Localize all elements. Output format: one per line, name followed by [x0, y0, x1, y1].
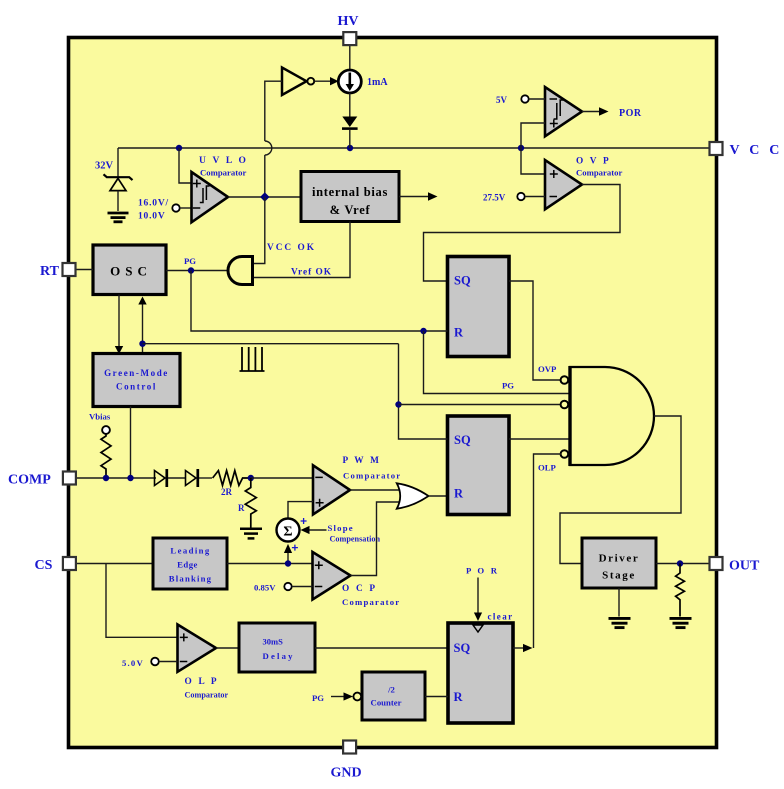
ground (OUT resistor): [670, 618, 692, 627]
zener Z1 32V branch wire: [117, 148, 119, 177]
wire: PG net down and right to FF1 R: [191, 271, 448, 332]
svg-text:Comparator: Comparator: [342, 597, 400, 607]
svg-text:POR: POR: [619, 108, 642, 119]
svg-text:CS: CS: [35, 558, 53, 573]
ground (zener): [108, 213, 129, 222]
comparator U4 POR: [545, 87, 582, 136]
wire: OR output to FF2 R: [429, 495, 448, 497]
zener Z1 symbol: [104, 174, 133, 180]
terminal 5.0V open circle: [151, 658, 159, 666]
pin HV square: [343, 32, 356, 45]
svg-text:RT: RT: [40, 264, 60, 279]
block Leading Edge Blanking: [153, 538, 227, 589]
svg-text:PG: PG: [312, 693, 324, 703]
wire: OSC to Green-Mode down arrow: [118, 295, 120, 348]
wire: counter to FF3 R: [425, 696, 448, 698]
svg-text:5.0V: 5.0V: [122, 658, 144, 668]
flip-flop FF2 SQ/R: [448, 416, 510, 515]
svg-text:Comparator: Comparator: [343, 471, 401, 481]
svg-text:Σ: Σ: [283, 525, 292, 540]
svg-text:32V: 32V: [95, 161, 114, 172]
svg-text:COMP: COMP: [8, 473, 51, 488]
symbol: oscillator comb ticks: [240, 347, 265, 371]
wire: OVP output routed to SQ1 S input: [424, 185, 621, 282]
svg-text:V C C: V C C: [730, 143, 783, 158]
wire+arrow: bias box output: [399, 196, 429, 198]
svg-text:/2: /2: [387, 685, 395, 695]
svg-text:Vref OK: Vref OK: [291, 268, 332, 278]
node: junction on rail at OVP/POR feed: [518, 145, 524, 151]
wire: FF1 Q output to NAND bubble input 1: [509, 281, 561, 380]
terminal 5V open circle: [521, 95, 528, 102]
block OSC: [93, 245, 166, 295]
wire: green-mode net down to FF2 S input: [399, 344, 448, 439]
wire: CS branch down to OLP + input: [106, 564, 178, 638]
clear notch triangle on FF3: [473, 625, 483, 632]
svg-text:27.5V: 27.5V: [483, 193, 506, 203]
wire: RT pin to OSC: [75, 269, 93, 271]
svg-text:R: R: [454, 690, 464, 704]
resistor 2R horizontal zigzag: [213, 471, 251, 486]
svg-text:& Vref: & Vref: [330, 203, 371, 217]
gate G1: 2-input AND (facing left): [228, 257, 252, 285]
wire: HV pin drop to current source: [349, 45, 351, 70]
svg-text:Control: Control: [116, 382, 157, 392]
flip-flop FF1 SQ/R: [448, 257, 510, 357]
svg-text:Edge: Edge: [177, 560, 198, 570]
node: junction Vbias/COMP: [103, 475, 109, 481]
svg-text:5V: 5V: [496, 95, 508, 105]
wire: PG net down to NAND input 2: [424, 331, 571, 394]
svg-text:30mS: 30mS: [263, 637, 284, 647]
svg-text:OLP: OLP: [538, 463, 557, 473]
block Green-Mode Control: [93, 354, 180, 407]
current source I1 1mA circle: [338, 70, 361, 93]
diode D2 on COMP line: [155, 471, 166, 486]
svg-text:P O R: P O R: [466, 566, 499, 576]
svg-text:O L P: O L P: [185, 677, 219, 687]
wire: Driver Stage to OUT pin: [656, 563, 710, 565]
wire: CS line to LEB: [76, 563, 153, 565]
wire: delay output to FF3 S: [315, 647, 448, 649]
svg-text:SQ: SQ: [454, 274, 471, 288]
comparator U5 OVP: [545, 160, 582, 209]
wire: diode to rail: [349, 130, 351, 148]
svg-text:Compensation: Compensation: [330, 535, 381, 544]
svg-text:Comparator: Comparator: [200, 168, 246, 178]
pin OUT square: [710, 557, 723, 570]
bubble input 1 (OVP): [561, 376, 569, 384]
wire: VCC OK drop to AND gate: [253, 197, 265, 264]
IC outline box: [69, 38, 717, 748]
gate G2: OR: [397, 483, 429, 508]
wire: junction to PWM - input: [251, 477, 313, 479]
node: junction on up line: [139, 341, 145, 347]
node: junction on rail below diode: [347, 145, 353, 151]
wire+arrow: inverter output to current source: [314, 80, 331, 82]
wire+arrow: POR output: [582, 111, 600, 113]
resistor RV (Vbias) vertical zigzag: [101, 434, 111, 478]
ground (Driver): [609, 618, 631, 627]
svg-text:VCC OK: VCC OK: [267, 243, 316, 253]
node: junction at FF1 R: [420, 328, 426, 334]
svg-text:Counter: Counter: [371, 698, 402, 708]
svg-text:Leading: Leading: [170, 546, 210, 556]
sigma plus marks: [292, 518, 307, 551]
ground (R): [240, 529, 262, 539]
wire: current source to diode: [349, 93, 351, 117]
wire+arrow: LEB node up into sigma bottom: [287, 552, 289, 564]
wire: inverter input down with hop over rail: [265, 81, 282, 141]
bubble input 3: [561, 401, 569, 409]
wire: PWM output to OR gate: [350, 489, 402, 491]
gate G3: 5-input AND (output driver gate): [570, 367, 654, 465]
resistor R vertical zigzag: [245, 478, 256, 528]
terminal 0.85V open circle: [284, 583, 291, 590]
svg-text:OUT: OUT: [729, 559, 760, 574]
comparator U3 UVLO: [192, 172, 229, 222]
svg-text:P W M: P W M: [343, 456, 382, 466]
wire: OLP output to delay: [216, 647, 239, 649]
wire: UVLO output to bias box: [228, 196, 301, 198]
svg-text:Comparator: Comparator: [185, 691, 229, 700]
wire: Vref OK from bias box bottom to AND gate: [253, 222, 351, 278]
wire: rail to UVLO + input: [179, 148, 192, 183]
current source arrow down: [348, 73, 351, 86]
svg-text:R: R: [238, 503, 245, 513]
svg-text:R: R: [454, 487, 464, 501]
comparator U8 OLP: [178, 625, 217, 672]
wire+arrow: POR clear into FF3: [477, 578, 479, 614]
wire: junction to NAND bubble input 3: [399, 404, 562, 406]
svg-text:HV: HV: [338, 14, 359, 29]
svg-text:O V P: O V P: [576, 157, 611, 167]
block 30mS Delay: [239, 623, 315, 672]
node: junction on rail above UVLO + input: [176, 145, 182, 151]
svg-text:SQ: SQ: [454, 433, 471, 447]
hysteresis glyph POR: [554, 100, 564, 119]
pin RT square: [63, 263, 76, 276]
wire: NAND output to Driver Stage: [560, 416, 681, 564]
svg-text:SQ: SQ: [454, 641, 471, 655]
diode D3 on COMP line: [186, 471, 197, 486]
svg-text:Slope: Slope: [328, 523, 354, 533]
inverter U2 (buffer with bubble): [282, 68, 307, 96]
comparator U6 PWM: [313, 465, 350, 514]
bubble input 5 (OLP): [561, 450, 569, 458]
node: junction at OUT: [677, 560, 683, 566]
diode D1 (series diode below current source): [342, 117, 357, 128]
node: junction GMC/COMP: [127, 475, 133, 481]
node: junction on FF2 S net: [395, 401, 401, 407]
block Driver Stage: [582, 538, 656, 588]
svg-text:Comparator: Comparator: [576, 168, 622, 178]
node: junction 2R/R: [248, 475, 254, 481]
comparator U7 OCP: [313, 552, 351, 600]
wire: rail junction down to OVP + input: [521, 148, 545, 174]
pin GND square: [343, 741, 356, 754]
pin CS square: [63, 557, 76, 570]
svg-text:GND: GND: [331, 766, 362, 781]
svg-text:Driver: Driver: [599, 553, 640, 565]
svg-text:Vbias: Vbias: [89, 412, 111, 422]
terminal Vbias open circle: [102, 426, 110, 434]
wire+arrow: slope compensation into sigma: [308, 529, 327, 531]
svg-text:2R: 2R: [221, 487, 233, 497]
pin VCC square: [710, 142, 723, 155]
wire: OCP output up to OR gate: [351, 502, 402, 576]
svg-text:Green-Mode: Green-Mode: [104, 368, 169, 378]
wire: VCC top rail y=148: [118, 147, 710, 149]
terminal 27.5V open circle: [517, 193, 524, 200]
svg-text:PG: PG: [184, 256, 196, 266]
svg-text:internal bias: internal bias: [312, 185, 388, 199]
summer SIGMA circle: [277, 519, 300, 542]
svg-text:OSC: OSC: [110, 264, 152, 279]
svg-text:clear: clear: [488, 612, 514, 622]
wire: junction to FF2 S input net: [143, 343, 399, 345]
svg-text:OVP: OVP: [538, 364, 557, 374]
node: diamond junction at UVLO output: [260, 192, 269, 201]
resistor RO (OUT pulldown) vertical zigzag: [676, 564, 685, 617]
wire: sigma to PWM + input: [288, 502, 313, 519]
svg-text:PG: PG: [502, 381, 514, 391]
svg-text:10.0V: 10.0V: [138, 212, 166, 222]
svg-text:O C P: O C P: [342, 584, 377, 594]
svg-text:R: R: [454, 326, 464, 340]
block: internal bias & Vref: [301, 172, 399, 222]
block /2 Counter: [362, 672, 425, 720]
wire+arrow+bubble: PG into /2 counter: [331, 696, 344, 698]
wire: Driver Stage bottom to ground: [618, 588, 620, 617]
svg-text:1mA: 1mA: [367, 77, 388, 88]
svg-text:0.85V: 0.85V: [254, 583, 276, 593]
wire: Green-Mode bottom to COMP line: [130, 407, 132, 479]
wire: OSC output PG to AND gate: [166, 270, 229, 272]
wire: Green-Mode to OSC up arrow: [142, 303, 144, 354]
terminal 16.0V/10.0V open circle: [172, 204, 179, 211]
svg-text:Stage: Stage: [602, 570, 636, 582]
svg-text:Delay: Delay: [263, 651, 295, 661]
node: PG junction: [188, 267, 194, 273]
svg-text:16.0V/: 16.0V/: [138, 199, 169, 209]
hysteresis glyph UVLO: [200, 186, 210, 203]
wire+arrow: FF3 Q output up: [513, 647, 524, 649]
svg-text:Blanking: Blanking: [169, 574, 212, 584]
node: junction below sigma: [285, 560, 291, 566]
wire: FF2 Q output to NAND input 4: [509, 438, 570, 440]
wire: COMP line: [76, 477, 156, 479]
wire: rail junction up to POR + input: [521, 123, 545, 148]
pin COMP square: [63, 472, 76, 485]
flip-flop FF3 SQ/R: [448, 623, 513, 723]
svg-text:U V L O: U V L O: [199, 156, 248, 166]
wire: FF3 Q up to NAND bubble input 5: [534, 454, 562, 648]
wire: LEB output to OCP +: [227, 563, 313, 565]
